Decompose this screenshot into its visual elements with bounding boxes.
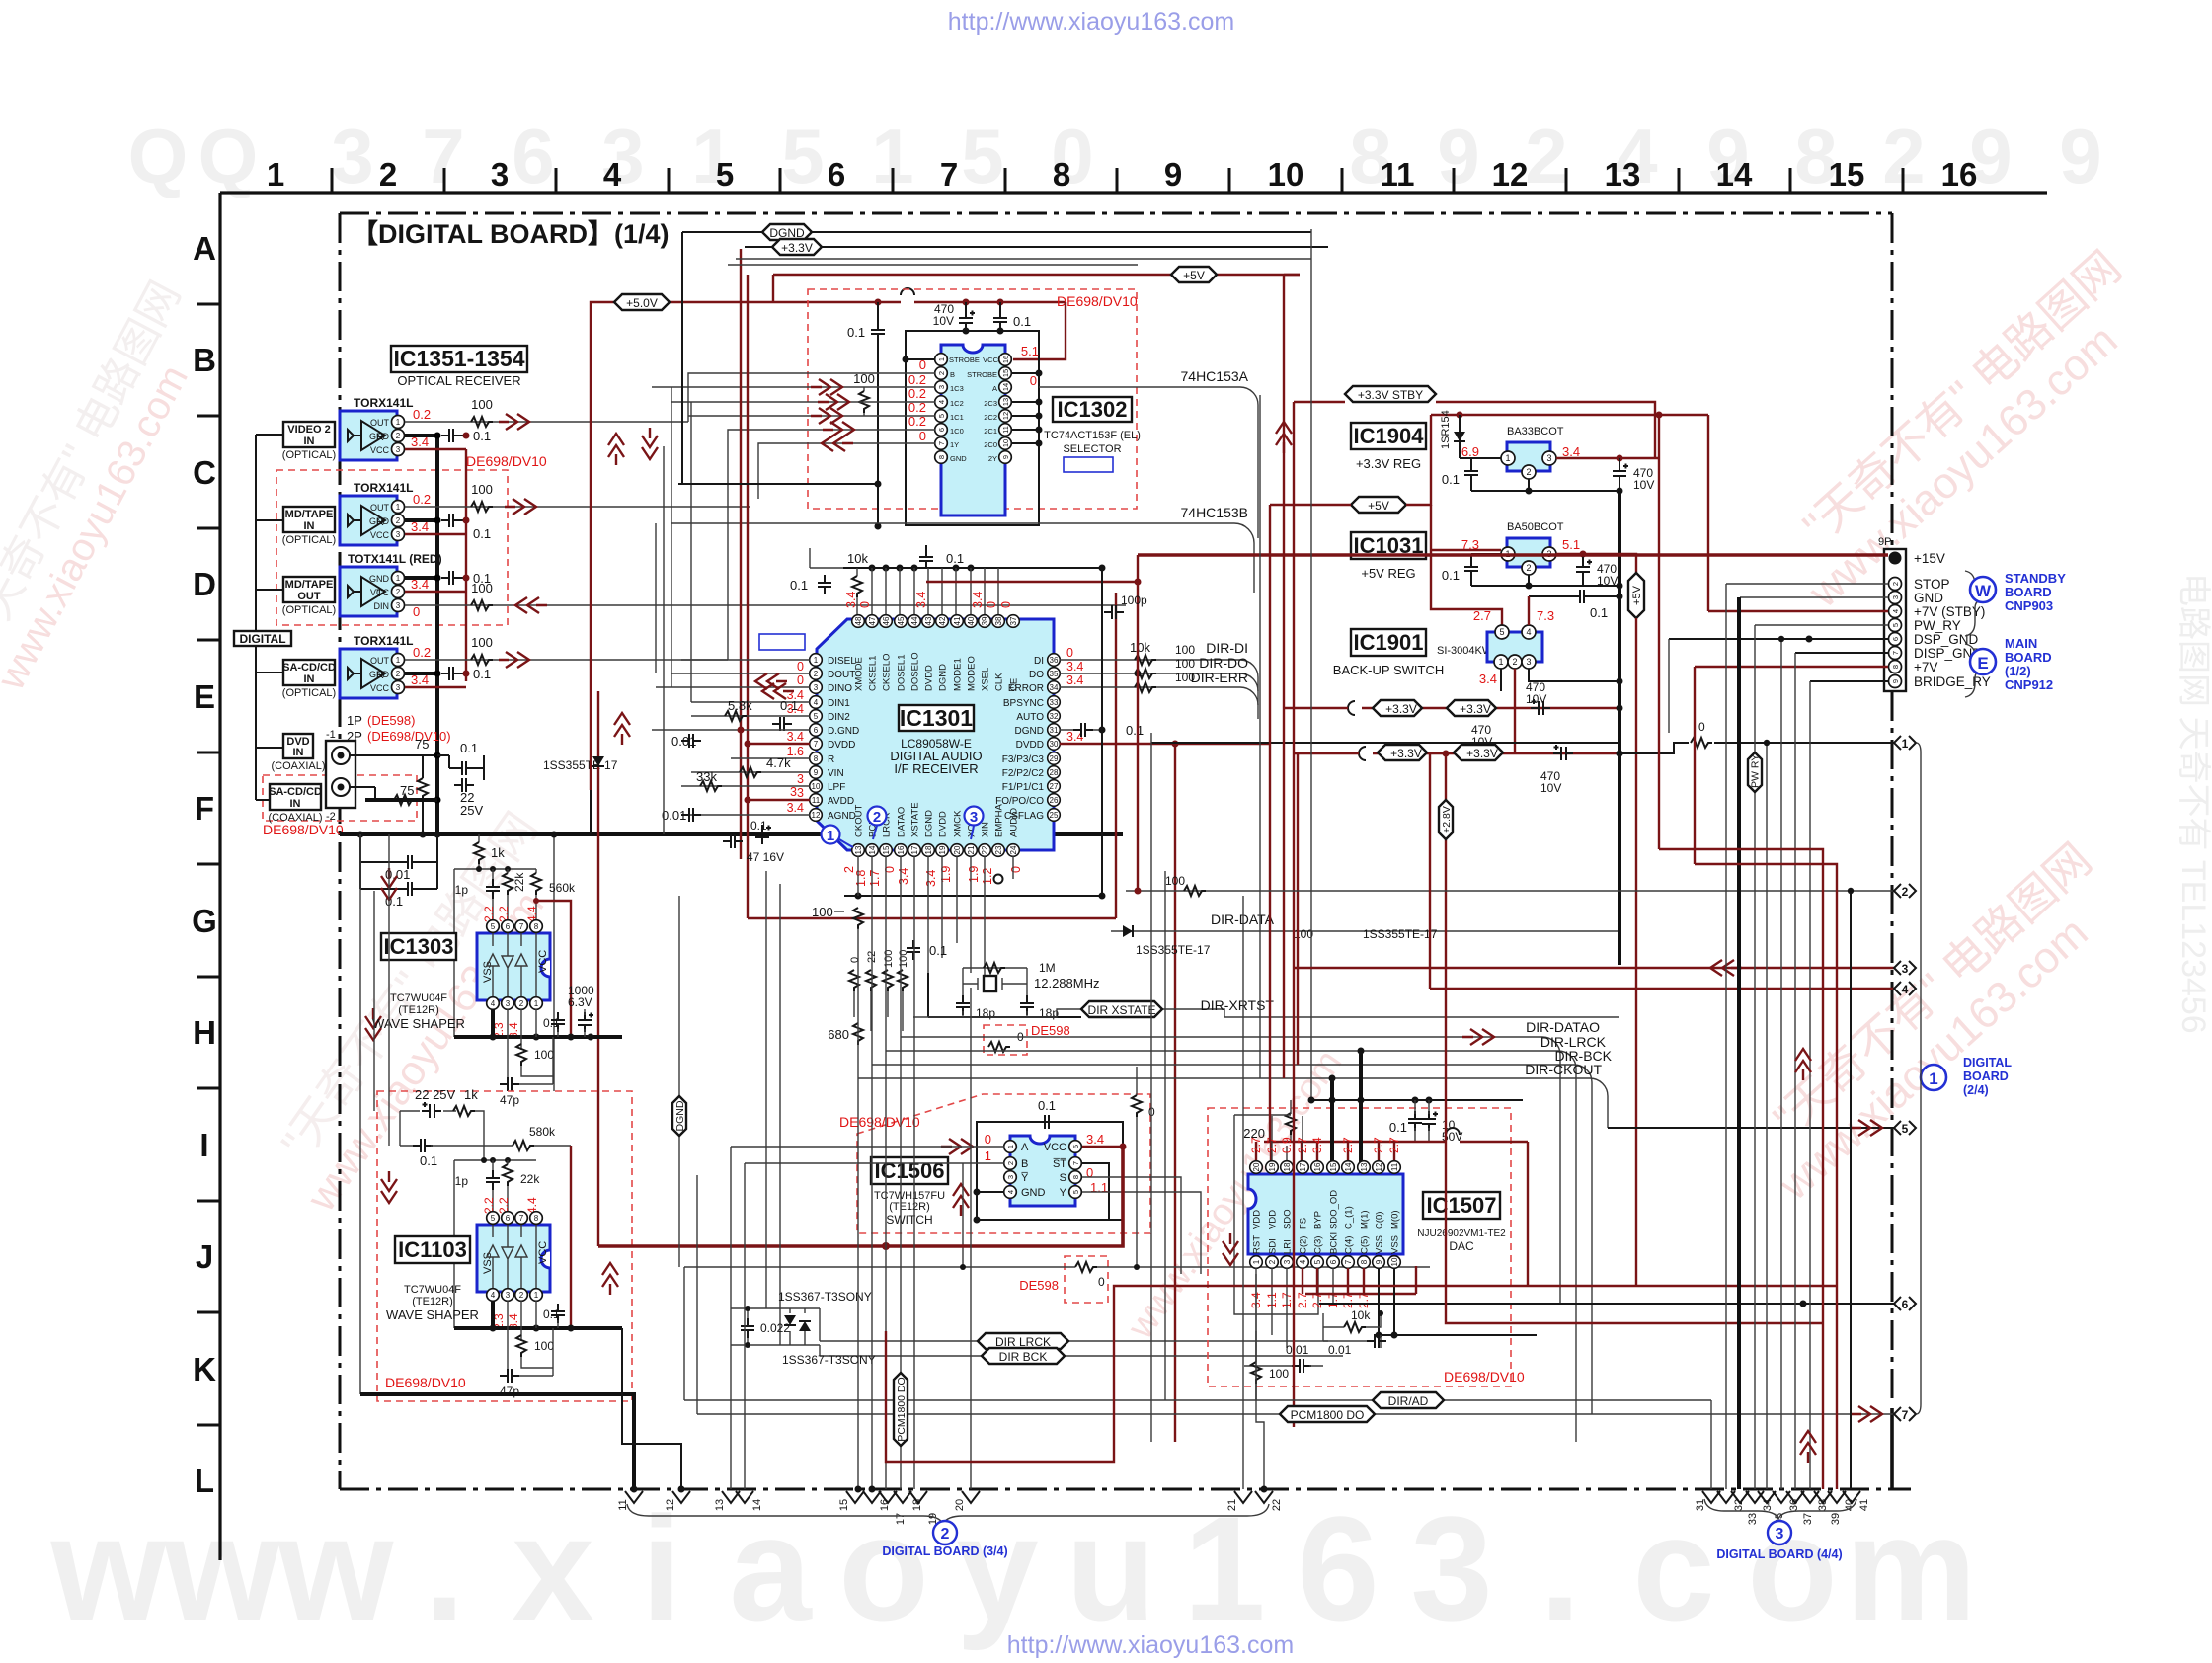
caps 0.1 and 10 50V (1389, 1100, 1462, 1144)
svg-text:21: 21 (967, 845, 976, 854)
bottom pin wires IC1507 (1256, 1266, 1537, 1400)
svg-text:E: E (194, 678, 215, 715)
net +5V hexagon mid (1351, 497, 1406, 513)
svg-text:H: H (193, 1014, 216, 1051)
brace standby board (1965, 571, 1983, 636)
svg-text:+2.8V: +2.8V (1441, 806, 1453, 833)
svg-text:E: E (1977, 654, 1988, 673)
elcap 470 10V IC1031 (1576, 554, 1618, 588)
svg-text:OUT: OUT (370, 503, 390, 513)
svg-text:(DE598): (DE598) (367, 713, 415, 728)
svg-text:6: 6 (1297, 1485, 1379, 1651)
svg-text:DE698/DV10: DE698/DV10 (1444, 1369, 1525, 1385)
resistor 0 vertical right (1132, 1067, 1155, 1267)
bracket to node 1 digital board 2/4 (1917, 743, 1921, 1414)
svg-text:8: 8 (937, 455, 946, 459)
red dashed box DE698/DV10 around IC1506 (857, 1094, 1150, 1233)
wire pin5 Y (1082, 1192, 1201, 1274)
svg-text:9: 9 (1164, 156, 1182, 193)
resistor 560k (531, 869, 576, 920)
faint gray watermark digits top (128, 113, 2102, 199)
maroon vertical mid 4 (1293, 402, 1295, 1427)
connector CNP903/CNP912 9P (1878, 536, 1991, 691)
svg-text:1: 1 (1505, 453, 1510, 463)
svg-text:6: 6 (512, 113, 554, 199)
svg-text:0.1: 0.1 (1389, 1120, 1407, 1135)
svg-text:32: 32 (1050, 712, 1059, 721)
maroon 560k to elcap rail (533, 898, 571, 1037)
cap 0.1 right (993, 302, 1031, 331)
svg-text:R: R (828, 754, 834, 765)
svg-text:13: 13 (854, 845, 863, 854)
svg-text:1: 1 (827, 828, 834, 844)
svg-text:6: 6 (1902, 1298, 1909, 1311)
svg-text:PW_RY: PW_RY (1914, 618, 1961, 633)
bottom connector chevrons 31-41 (1695, 1491, 1870, 1525)
svg-text:1Y: 1Y (950, 440, 959, 449)
svg-text:DIR BCK: DIR BCK (999, 1350, 1048, 1364)
svg-text:1k: 1k (464, 1087, 478, 1102)
resistor 580k (484, 1125, 571, 1150)
svg-text:0.1: 0.1 (1126, 723, 1144, 738)
svg-text:F1/P1/C1: F1/P1/C1 (1002, 782, 1045, 793)
wire DIR-LRCK (886, 1034, 1607, 1442)
svg-text:20: 20 (953, 845, 962, 854)
top ruler numbers (267, 156, 1978, 193)
svg-text:+3.3V: +3.3V (1466, 747, 1498, 760)
wire IC1901 outputs (1501, 669, 1623, 691)
top rail IC1103 (454, 1146, 536, 1328)
svg-text:DE698/DV10: DE698/DV10 (839, 1114, 920, 1130)
pullup rail 10k above IC1301 (790, 545, 1106, 615)
svg-text:D.GND: D.GND (828, 726, 859, 737)
label box IC1301 (890, 705, 982, 776)
svg-text:电路图网 天奇不有 TEL123456: 电路图网 天奇不有 TEL123456 (2174, 573, 2212, 1034)
op-amp body IC1302 TC74ACT153F (941, 345, 1005, 515)
IC1302 pin names (949, 356, 980, 463)
svg-text:13: 13 (1360, 1162, 1369, 1171)
svg-text:100: 100 (471, 581, 493, 595)
svg-text:AUDIO: AUDIO (1009, 808, 1020, 837)
svg-text:C: C (193, 454, 216, 491)
wire reg1031 output maroon (1556, 551, 1636, 574)
svg-text:0.1: 0.1 (780, 698, 798, 713)
svg-text:0.1: 0.1 (790, 578, 808, 593)
svg-text:0.1: 0.1 (1013, 314, 1031, 329)
IC1301 left pin col 1-12 (787, 654, 860, 822)
wire pin8 R (731, 757, 810, 759)
svg-text:1: 1 (1006, 1145, 1015, 1148)
svg-text:DIR-ERR: DIR-ERR (1191, 670, 1248, 685)
svg-text:BRIDGE_RY: BRIDGE_RY (1914, 674, 1991, 689)
wire DIR-BCK (872, 1048, 1613, 1414)
svg-text:+7V: +7V (1914, 660, 1937, 674)
svg-text:7: 7 (1344, 1259, 1353, 1264)
svg-text:75: 75 (415, 737, 429, 752)
svg-text:IN: IN (304, 673, 315, 685)
svg-text:0: 0 (797, 660, 804, 673)
svg-text:38: 38 (994, 616, 1003, 625)
top ruler line (220, 191, 2047, 194)
wire OUT md/tape with resistor 100 (405, 482, 750, 515)
svg-text:2: 2 (941, 1526, 950, 1543)
net +3.3V hexagon 2 (1454, 745, 1503, 760)
svg-text:3: 3 (506, 999, 511, 1008)
svg-text:DISEL: DISEL (828, 656, 856, 667)
svg-text:6: 6 (1329, 1259, 1338, 1264)
svg-text:6: 6 (814, 726, 819, 735)
red dashed box DE698/DV10 around IC1507 (1208, 1108, 1511, 1386)
svg-text:7: 7 (814, 740, 819, 749)
svg-text:0: 0 (1009, 866, 1023, 873)
svg-text:VCC: VCC (983, 356, 998, 364)
svg-text:0: 0 (985, 601, 998, 608)
svg-text:5: 5 (1313, 1259, 1322, 1264)
wire pin6 left (728, 430, 935, 660)
svg-text:0: 0 (797, 673, 804, 687)
resistor 680 (828, 1023, 863, 1045)
svg-text:37: 37 (1009, 616, 1018, 625)
svg-text:3.4: 3.4 (897, 868, 910, 885)
wire to conn 3 (1294, 960, 1894, 976)
red pin volts IC1103 bottom (492, 1313, 520, 1330)
svg-text:2Y: 2Y (988, 454, 997, 463)
svg-text:Y: Y (1060, 1187, 1067, 1199)
svg-text:11: 11 (812, 796, 821, 805)
svg-text:TC7WU04F: TC7WU04F (404, 1284, 461, 1296)
svg-text:FS: FS (1299, 1218, 1309, 1229)
svg-text:10: 10 (1268, 156, 1304, 193)
svg-text:+3.3V STBY: +3.3V STBY (1358, 388, 1423, 402)
svg-text:DINO: DINO (828, 683, 852, 694)
svg-text:MODE1: MODE1 (953, 658, 964, 691)
maroon +5.0V riser (591, 288, 1066, 834)
wire +7V maroon (1695, 666, 1888, 668)
svg-text:M(0): M(0) (1390, 1210, 1401, 1229)
svg-text:a: a (729, 1485, 813, 1651)
svg-text:44: 44 (910, 616, 919, 625)
svg-text:3.4: 3.4 (1479, 672, 1497, 686)
svg-text:6: 6 (1891, 637, 1900, 641)
node E main board (1970, 636, 2053, 692)
vertical feeders bottom left (684, 1147, 745, 1489)
svg-text:IN: IN (304, 436, 315, 447)
svg-text:IC1301: IC1301 (900, 705, 973, 731)
svg-text:0: 0 (919, 429, 926, 443)
wire OUT video2 with resistor R 100 (405, 397, 688, 430)
svg-text:A: A (193, 230, 216, 267)
svg-text:STROBE: STROBE (949, 356, 980, 364)
svg-text:D: D (193, 566, 216, 602)
svg-text:100p: 100p (1121, 594, 1147, 607)
svg-text:0.2: 0.2 (413, 407, 431, 422)
optical receiver U1352 TORX141L (340, 481, 431, 545)
svg-text:10: 10 (812, 782, 821, 791)
svg-text:M(1): M(1) (1360, 1210, 1371, 1229)
bottom connector chevrons 11-22 (617, 1491, 1283, 1525)
svg-text:100: 100 (534, 1048, 554, 1062)
svg-text:35: 35 (1050, 670, 1059, 678)
svg-text:DOUT: DOUT (828, 670, 855, 680)
wire +3.3V line maroon (1294, 747, 1623, 760)
chip outer frame IC1302 (906, 331, 1039, 525)
cap 0.01 below trunk (360, 834, 437, 909)
wire DGND pin31 cap (1060, 723, 1144, 738)
svg-text:18: 18 (1283, 1162, 1292, 1171)
svg-text:DE698/DV10: DE698/DV10 (466, 453, 547, 469)
wire pin6 D.GND (652, 727, 810, 750)
svg-text:22: 22 (1271, 1499, 1283, 1511)
svg-text:11: 11 (1390, 1162, 1399, 1171)
svg-text:3: 3 (1006, 1175, 1015, 1179)
svg-text:14: 14 (868, 845, 877, 854)
svg-text:0.1: 0.1 (847, 325, 865, 340)
maroon up arrows on right bus (1795, 1049, 1816, 1463)
svg-text:XSTATE: XSTATE (910, 802, 921, 837)
svg-text:0.01: 0.01 (671, 734, 696, 749)
svg-text:3.4: 3.4 (787, 801, 804, 815)
svg-text:0: 0 (999, 601, 1013, 608)
maroon vertical x606 lower segment (597, 834, 599, 1246)
svg-text:45: 45 (897, 616, 906, 625)
svg-text:A: A (992, 384, 997, 393)
red pin volts IC1103 top (482, 1197, 539, 1214)
svg-text:2: 2 (873, 809, 881, 826)
svg-text:100: 100 (1165, 874, 1185, 888)
maroon VCC wire to IC1302 (875, 299, 1066, 360)
svg-text:VIDEO 2: VIDEO 2 (287, 424, 330, 436)
svg-text:12: 12 (812, 811, 821, 820)
svg-text:580k: 580k (529, 1125, 556, 1139)
node circled 2 (868, 807, 887, 840)
svg-text:VSS: VSS (1390, 1235, 1401, 1254)
svg-text:6: 6 (828, 156, 845, 193)
svg-text:8: 8 (1071, 1175, 1080, 1179)
svg-text:4: 4 (1526, 627, 1531, 637)
optical receiver U1351 TORX141L (340, 396, 431, 460)
IC1301 top pin row 48-37 (844, 592, 1020, 691)
svg-text:1SS355TE-17: 1SS355TE-17 (1363, 927, 1438, 941)
svg-text:4: 4 (1902, 983, 1909, 996)
svg-text:DIN1: DIN1 (828, 698, 850, 709)
IC1301 right pin col 36-25 (995, 646, 1083, 822)
svg-text:100: 100 (471, 635, 493, 650)
svg-text:3.4: 3.4 (971, 592, 985, 608)
svg-text:+15V: +15V (1914, 551, 1945, 566)
svg-text:3: 3 (396, 601, 401, 610)
svg-text:0.1: 0.1 (1442, 568, 1460, 583)
resistor ladder below IC1301 (849, 950, 909, 1031)
svg-text:IN: IN (304, 520, 315, 532)
trunk wire y845 (340, 832, 1123, 836)
input label box DVD IN (COAXIAL) (271, 734, 325, 772)
maroon vertical trunk pair left of IC1301 (740, 249, 742, 859)
output label box MD/TAPE OUT (OPTICAL) (282, 577, 336, 616)
svg-text:NJU26902VM1-TE2: NJU26902VM1-TE2 (1417, 1228, 1506, 1239)
gray feeder verticals (360, 834, 389, 1394)
svg-text:1: 1 (1902, 737, 1909, 751)
IC1301 bottom pin row 13-24 (842, 802, 1023, 887)
wire pin4 DIN1 (691, 701, 810, 703)
svg-text:9: 9 (1437, 113, 1479, 199)
red dashed box DE598 (1019, 1256, 1108, 1303)
svg-text:2C1: 2C1 (984, 427, 997, 436)
svg-text:1M: 1M (1039, 961, 1056, 975)
svg-text:+3.3V: +3.3V (1390, 747, 1422, 760)
svg-text:3: 3 (1526, 657, 1531, 667)
left ruler letters (192, 230, 217, 1499)
svg-text:3.4: 3.4 (1066, 660, 1083, 673)
black vertical mid (1310, 229, 1312, 1100)
svg-text:1k: 1k (491, 845, 505, 860)
svg-text:34: 34 (1050, 683, 1059, 692)
wire pin1 A (731, 1146, 1004, 1148)
node circled 3 (965, 807, 984, 840)
svg-text:2.7: 2.7 (1265, 1137, 1279, 1153)
svg-text:5: 5 (1902, 1122, 1909, 1136)
svg-text:17: 17 (895, 1513, 907, 1525)
svg-text:36: 36 (1050, 656, 1059, 665)
svg-text:0.1: 0.1 (1442, 472, 1460, 487)
diode 1SS355TE-17 on maroon line (543, 691, 618, 834)
label 100p (1104, 594, 1147, 619)
svg-text:3: 3 (396, 530, 401, 539)
svg-text:VCC: VCC (370, 683, 390, 693)
wires GND pins to bus with caps (405, 429, 491, 681)
svg-text:0: 0 (985, 1132, 991, 1147)
wire pin1 top frame (906, 358, 935, 360)
svg-text:STROBE: STROBE (967, 370, 997, 379)
resistor 100 below IC1103 (516, 1328, 554, 1368)
svg-text:SDO: SDO (1283, 1209, 1294, 1229)
wire pin7 DVDD maroon (745, 741, 811, 748)
svg-text:VCC: VCC (370, 588, 390, 597)
wire PW_RY (1755, 624, 1888, 626)
svg-text:1P: 1P (347, 713, 362, 728)
svg-text:1SR154: 1SR154 (1440, 410, 1452, 449)
net +3.3V top (745, 239, 1328, 255)
svg-text:33: 33 (1050, 698, 1059, 707)
svg-text:GND: GND (369, 432, 390, 441)
svg-text:9: 9 (2059, 113, 2101, 199)
resistor 100 pullup (853, 371, 875, 416)
svg-text:BYP: BYP (1313, 1211, 1324, 1229)
svg-text:3: 3 (396, 445, 401, 454)
svg-text:7: 7 (519, 922, 524, 931)
svg-text:3: 3 (797, 786, 804, 800)
svg-text:5: 5 (716, 156, 734, 193)
junction dots frame (875, 328, 1004, 530)
wire pin10 LPF with 33k (681, 769, 810, 791)
svg-text:S̅T̅: S̅T̅ (1053, 1158, 1067, 1170)
svg-text:PCM1800 DO: PCM1800 DO (1291, 1408, 1365, 1422)
svg-text:22 25V: 22 25V (415, 1087, 456, 1102)
svg-text:25: 25 (1050, 811, 1059, 820)
brace to node 2 (627, 1504, 1269, 1524)
maroon vertical mid 3 (1297, 753, 1299, 1065)
net +5.0V hexagon (614, 294, 670, 310)
svg-text:4: 4 (491, 1291, 496, 1300)
gnd rail IC1904 (1471, 479, 1623, 965)
gnd bottom rail y765 (1151, 720, 1894, 757)
svg-text:9: 9 (814, 768, 819, 777)
svg-text:2.7: 2.7 (1387, 1137, 1401, 1153)
svg-text:4: 4 (937, 400, 946, 404)
svg-text:SA-CD/CD: SA-CD/CD (282, 662, 336, 673)
net DIR BCK (820, 1345, 1343, 1364)
pink diagonal watermarks (0, 241, 2212, 1347)
svg-text:1: 1 (396, 656, 401, 665)
svg-text:1.9: 1.9 (967, 866, 981, 883)
svg-text:PW RY: PW RY (1750, 754, 1762, 788)
svg-text:2C2: 2C2 (984, 413, 997, 422)
blue empty box (1064, 457, 1113, 472)
svg-text:Q: Q (128, 113, 189, 199)
resistor 220 feed (1243, 1100, 1296, 1142)
left ruler line (218, 193, 221, 1560)
svg-text:7: 7 (519, 1214, 524, 1223)
cap 0.1 top IC1506 (1037, 1098, 1057, 1129)
top rail black IC1507 (1312, 1097, 1523, 1104)
cap 1p IC1103 (455, 1160, 500, 1212)
svg-text:13: 13 (714, 1499, 726, 1511)
crystal X1301 12.288MHz (928, 961, 1099, 1017)
svg-text:38: 38 (1817, 1499, 1829, 1511)
svg-text:29: 29 (1050, 754, 1059, 763)
svg-text:DIN: DIN (374, 601, 390, 611)
wire STOP (1726, 583, 1888, 585)
svg-text:GND: GND (369, 516, 390, 526)
svg-text:3: 3 (970, 809, 978, 826)
svg-text:0.2: 0.2 (413, 492, 431, 507)
wires IC1302 right pins to frame (1011, 370, 1043, 447)
svg-text:2: 2 (1006, 1161, 1015, 1165)
stub wires bottom pins (858, 856, 1013, 988)
wire BRIDGE_RY (1810, 680, 1888, 682)
svg-text:10V: 10V (1526, 692, 1546, 706)
svg-text:0.1: 0.1 (1038, 1098, 1056, 1113)
feeder verticals to IC1507 (1332, 1051, 1361, 1175)
diode 1SR154 (1440, 410, 1502, 458)
svg-text:5.8k: 5.8k (728, 698, 752, 713)
dac U1507 body (617, 224, 1921, 1561)
svg-text:3: 3 (491, 156, 509, 193)
svg-text:18p: 18p (976, 1006, 995, 1020)
svg-text:0.1: 0.1 (473, 429, 491, 443)
svg-text:5: 5 (781, 113, 824, 199)
svg-text:560k: 560k (549, 881, 576, 895)
svg-text:DE598: DE598 (1031, 1023, 1070, 1038)
wire DVDD pin30 maroon (1060, 741, 1270, 1443)
svg-text:XIN: XIN (981, 822, 991, 837)
op-amp U1506 body (985, 1132, 1108, 1206)
up arrow IC1506 (953, 1184, 969, 1216)
svg-text:6: 6 (506, 922, 511, 931)
svg-text:+3.3V: +3.3V (1460, 702, 1491, 716)
label box IC1901 (1333, 629, 1444, 677)
svg-text:SDI: SDI (1268, 1238, 1279, 1254)
svg-text:BOARD: BOARD (2005, 585, 2052, 599)
svg-text:0: 0 (1030, 373, 1037, 388)
svg-text:0.01: 0.01 (662, 808, 686, 823)
blue empty box left of IC1301 (759, 634, 805, 650)
svg-text:4: 4 (491, 999, 496, 1008)
cap 0.1 IC1103 (543, 1304, 565, 1328)
svg-text:47 16V: 47 16V (747, 850, 784, 864)
wire VCC maroon IC1506 (1082, 1144, 1127, 1150)
svg-text:IC1302: IC1302 (1058, 397, 1128, 422)
svg-text:12: 12 (1001, 412, 1010, 420)
